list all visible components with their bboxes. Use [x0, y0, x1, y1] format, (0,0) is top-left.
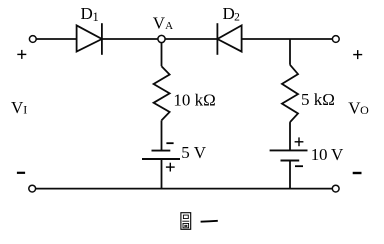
wire battery 5V to bottom rail — [161, 159, 163, 189]
wire R2 to battery 10V — [289, 122, 291, 150]
terminal output top — [332, 36, 339, 43]
resistor R2 5 kOhm zigzag — [282, 65, 298, 122]
svg-text:10 kΩ: 10 kΩ — [173, 91, 215, 110]
wire node A down to R1 — [161, 43, 163, 67]
caption figure-1 character TU (drawn) — [181, 213, 191, 230]
wire node A to D2 — [165, 38, 217, 40]
svg-text:VO: VO — [348, 98, 369, 117]
svg-text:D1: D1 — [81, 4, 99, 24]
battery B2 plus label — [295, 137, 304, 146]
plus sign output — [353, 50, 362, 59]
wire right branch junction down to R2 — [289, 39, 291, 65]
battery B1 5V long positive plate — [142, 158, 180, 160]
diode D2 triangle — [217, 25, 241, 51]
wire D1 to node A — [102, 38, 158, 40]
wire R1 to battery 5V — [161, 120, 163, 150]
battery B1 minus label — [166, 142, 173, 144]
battery B2 10V long positive plate — [270, 149, 308, 151]
node A circle — [158, 35, 165, 42]
terminal input top — [29, 36, 36, 43]
wire top-left from input terminal to D1 — [36, 38, 76, 40]
svg-text:10 V: 10 V — [311, 145, 344, 164]
terminal output bottom — [332, 185, 339, 192]
wire battery 10V to bottom rail — [289, 161, 291, 189]
caption figure-1 character ONE (drawn) — [201, 220, 218, 223]
battery B2 minus label — [295, 165, 303, 167]
svg-text:VA: VA — [153, 14, 173, 33]
battery B1 plus label — [166, 163, 175, 172]
battery B2 10V short negative plate — [281, 160, 300, 162]
minus sign output — [353, 172, 362, 174]
battery B1 5V short negative plate — [152, 150, 171, 152]
plus sign input — [17, 50, 26, 59]
diode D2 cathode bar — [216, 23, 218, 55]
svg-text:5 kΩ: 5 kΩ — [301, 90, 335, 109]
svg-text:D2: D2 — [223, 4, 241, 24]
resistor R1 10 kOhm zigzag — [154, 66, 170, 120]
wire D2 to output terminal — [242, 38, 333, 40]
svg-text:VI: VI — [11, 98, 27, 117]
svg-text:5 V: 5 V — [181, 143, 206, 162]
diode D1 cathode bar — [101, 23, 103, 55]
wire bottom rail — [36, 188, 332, 190]
terminal input bottom — [29, 185, 36, 192]
minus sign input — [17, 172, 25, 174]
diode D1 triangle — [77, 25, 102, 51]
